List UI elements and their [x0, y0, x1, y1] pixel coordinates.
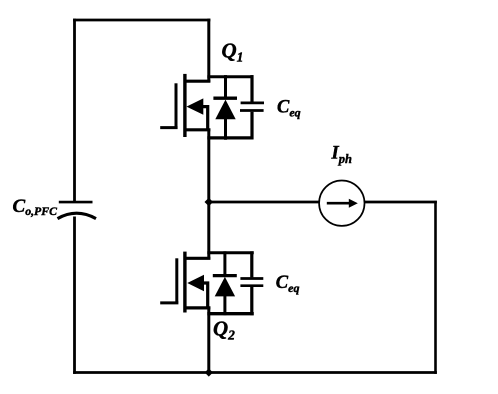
capacitor Ceq1 bottom lead: [250, 112, 253, 140]
wire Q1 branch bottom: [207, 136, 253, 139]
capacitor Ceq2 top lead: [250, 251, 253, 277]
wire Q1 branch top: [207, 75, 253, 78]
node A (midpoint junction): [205, 198, 214, 207]
wire main vertical top segment: [207, 19, 210, 82]
transistor Q1 body arrow head: [187, 98, 204, 114]
transistor Q2 source lead: [184, 306, 210, 309]
transistor Q2 gate bar: [175, 258, 178, 302]
wire middle horizontal right of source: [364, 201, 437, 204]
current source Iph arrow line: [327, 202, 352, 205]
wire bottom horizontal: [73, 371, 437, 374]
wire top horizontal: [73, 19, 210, 22]
transistor Q1 gate lead: [160, 126, 177, 129]
transistor Q1 source lead: [184, 128, 210, 131]
transistor Q1 channel bar: [183, 74, 186, 137]
diode D1 top lead: [224, 75, 227, 99]
capacitor Ceq2 top plate: [240, 277, 263, 280]
wire left vertical lower: [73, 217, 76, 374]
wire right vertical: [434, 201, 437, 374]
current source Iph arrow head: [349, 199, 358, 208]
wire middle horizontal left of source: [207, 201, 319, 204]
transistor Q1 drain lead: [184, 80, 210, 83]
diode D2 top lead: [223, 251, 226, 276]
wire main vertical bottom segment: [207, 307, 210, 374]
capacitor Ceq1 top lead: [250, 75, 253, 102]
diode D1 bottom lead: [224, 118, 227, 140]
diode D1 triangle: [215, 100, 235, 120]
diode D2 bottom lead: [223, 295, 226, 315]
transistor Q2 channel bar: [183, 252, 186, 313]
capacitor Ceq2 bottom plate: [240, 284, 263, 287]
capacitor Ceq2 bottom lead: [250, 287, 253, 315]
transistor Q2 drain lead: [184, 257, 210, 260]
transistor Q2 gate lead: [160, 301, 178, 304]
capacitor Ceq1 bottom plate: [240, 109, 264, 112]
current source Iph circle: [319, 181, 364, 226]
capacitor Co,PFC flat plate: [59, 201, 93, 204]
capacitor Ceq1 top plate: [241, 102, 264, 105]
node B (bottom junction): [205, 368, 213, 376]
wire Q2 branch top: [207, 251, 254, 254]
transistor Q1 gate bar: [175, 83, 178, 128]
wire Q2 branch bottom: [207, 312, 254, 315]
transistor Q2 body arrow lead: [196, 283, 208, 309]
diode D2 triangle: [215, 277, 235, 297]
diode D1 cathode bar: [213, 97, 237, 100]
wire main vertical middle segment: [207, 129, 210, 260]
diode D2 cathode bar: [213, 274, 237, 277]
transistor Q2 body arrow head: [187, 275, 204, 291]
transistor Q1 body arrow lead: [196, 107, 208, 130]
capacitor Co,PFC curved plate: [58, 213, 97, 218]
wire left vertical upper: [73, 19, 76, 202]
